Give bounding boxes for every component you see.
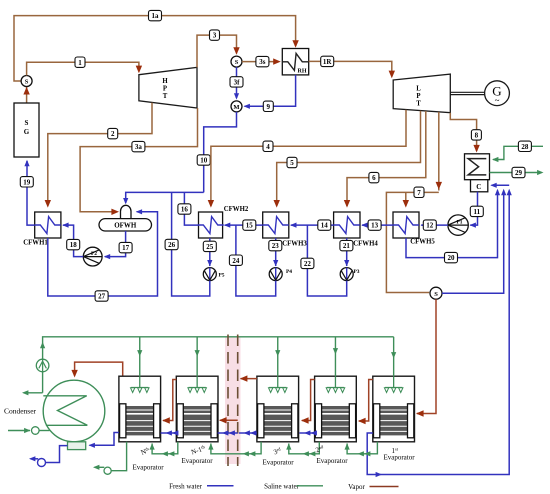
svg-text:7: 7 <box>417 189 421 197</box>
svg-text:16: 16 <box>181 206 189 214</box>
svg-text:26: 26 <box>168 241 176 249</box>
svg-text:CFWH5: CFWH5 <box>410 239 435 246</box>
condensate return 1st evaporator to C <box>367 191 509 478</box>
pump P4 <box>269 268 292 281</box>
label evaporator 1st <box>383 447 415 462</box>
svg-text:P: P <box>416 93 420 100</box>
wire line 24: P4 to feed line <box>236 225 276 296</box>
svg-text:Evaporator: Evaporator <box>132 464 164 472</box>
label 8 <box>471 130 481 140</box>
steam generator SG <box>14 103 39 157</box>
evaporator 2nd box <box>315 376 357 442</box>
label 3a <box>132 141 145 151</box>
wire line 20: CFWH5 drain to condenser <box>406 191 498 258</box>
reheater RH <box>282 49 308 75</box>
svg-text:1: 1 <box>78 59 82 67</box>
brine N-1 to N <box>150 442 178 457</box>
wire line 12: P1 to CFWH5 <box>421 223 448 228</box>
label 3s <box>256 56 269 66</box>
splitter S2 <box>231 56 242 67</box>
label 22 <box>301 258 314 268</box>
label 1R <box>321 56 334 66</box>
svg-text:25: 25 <box>206 243 214 251</box>
wire line 5: LPT extraction to CFWH3 <box>274 111 421 208</box>
label evaporator N-1 <box>181 444 213 465</box>
wire line 15: CFWH3 to CFWH2 <box>224 223 263 228</box>
label 5 <box>287 157 297 167</box>
svg-text:C: C <box>476 183 481 191</box>
splitter S1 <box>21 76 32 87</box>
wire line 29: cooling water outlet <box>490 170 544 175</box>
wire line 18: P2 to CFWH1 <box>62 223 83 257</box>
svg-text:P5: P5 <box>218 272 224 278</box>
label 16 <box>178 204 191 214</box>
svg-text:P2: P2 <box>91 251 97 257</box>
svg-text:8: 8 <box>475 132 479 140</box>
svg-text:CFWH2: CFWH2 <box>224 206 249 213</box>
wire line 1: S1 to HPT inlet <box>27 62 142 75</box>
svg-text:11: 11 <box>473 208 480 216</box>
wire S3 to 1st evaporator <box>416 299 436 417</box>
svg-text:M: M <box>233 104 239 111</box>
seawater reject line <box>22 390 43 395</box>
pump P3 <box>340 268 360 281</box>
svg-text:Evaporator: Evaporator <box>181 457 213 465</box>
svg-text:9: 9 <box>267 103 271 111</box>
wire feed header to OFWH <box>123 192 204 204</box>
svg-text:L: L <box>416 86 421 93</box>
svg-text:3f: 3f <box>234 79 241 87</box>
wire line 3f: S2 to mixer M <box>234 67 239 100</box>
turbine LPT <box>393 74 450 113</box>
wire line 8: LPT exhaust to condenser <box>450 113 480 153</box>
feedwater heater CFWH2 <box>198 206 249 238</box>
svg-text:Condenser: Condenser <box>4 407 37 416</box>
svg-text:T: T <box>163 93 168 100</box>
svg-text:S: S <box>434 291 438 298</box>
svg-text:10: 10 <box>200 157 208 165</box>
wire line 11: C to pump P1 <box>470 192 478 228</box>
svg-text:S: S <box>25 79 29 86</box>
label 28 <box>518 141 531 151</box>
label 13 <box>368 220 381 230</box>
svg-text:S: S <box>25 119 29 127</box>
label 24 <box>229 255 242 265</box>
vapor break to N-1 <box>219 417 238 423</box>
svg-text:3: 3 <box>213 32 217 40</box>
brine 1st to 2nd <box>345 442 378 457</box>
label 3 <box>210 30 220 40</box>
svg-text:2: 2 <box>111 130 115 138</box>
wire line 28: cooling water inlet <box>492 146 543 162</box>
label 3f <box>230 77 243 87</box>
turbine HPT <box>139 67 197 108</box>
splitter S3 <box>430 287 442 299</box>
vapor 2nd to 3rd <box>301 380 315 424</box>
fresh water product pump <box>29 446 68 467</box>
vapor 1st to 2nd <box>358 380 373 425</box>
label 29 <box>512 167 525 177</box>
feedwater heater CFWH5 <box>393 212 435 246</box>
evaporator N-1 box <box>176 376 218 442</box>
mixer M <box>231 101 242 112</box>
label 15 <box>243 220 256 230</box>
brine 2nd to 3rd <box>286 442 319 457</box>
svg-text:19: 19 <box>23 178 31 186</box>
svg-text:S: S <box>235 59 239 66</box>
svg-text:Evaporator: Evaporator <box>383 454 415 462</box>
label evaporator 3rd <box>262 446 294 466</box>
wire line 2: HPT extraction to CFWH1 <box>45 103 152 208</box>
label 14 <box>318 220 331 230</box>
svg-text:T: T <box>416 101 421 108</box>
distillate 2nd to 3rd <box>299 430 317 435</box>
saline water header <box>40 337 394 393</box>
svg-text:28: 28 <box>521 143 529 151</box>
svg-text:H: H <box>162 78 168 85</box>
label 9 <box>263 101 273 111</box>
svg-text:Fresh water: Fresh water <box>169 482 203 490</box>
label 27 <box>95 291 108 301</box>
label 26 <box>165 239 178 249</box>
pump P1 <box>448 215 468 235</box>
label 4 <box>263 141 273 151</box>
label 20 <box>445 252 458 262</box>
svg-text:20: 20 <box>448 254 456 262</box>
condenser hotwell box C <box>471 180 488 192</box>
label evaporator N <box>132 446 164 472</box>
svg-text:P4: P4 <box>286 269 292 275</box>
feedwater heater CFWH3 <box>263 212 308 248</box>
wire line 16: CFWH2 to OFWH header <box>184 192 198 225</box>
vapor Nth evaporator to condenser <box>71 362 122 377</box>
svg-text:24: 24 <box>232 257 240 265</box>
spray feed N-1 <box>195 337 200 376</box>
svg-text:29: 29 <box>515 169 523 177</box>
label 19 <box>20 177 33 187</box>
svg-text:1a: 1a <box>152 12 160 20</box>
spray feed N <box>137 337 142 376</box>
desalination condenser <box>4 380 105 442</box>
wire line 22: P3 to feed line <box>307 225 346 296</box>
svg-text:Vapor: Vapor <box>348 483 365 491</box>
condenser sump <box>68 442 86 450</box>
wire line 9: RH bottom to mixer M <box>244 75 296 109</box>
svg-text:13: 13 <box>371 222 379 230</box>
label 10 <box>197 155 210 165</box>
seawater feed line <box>8 427 50 435</box>
deaerator OFWH <box>99 205 152 231</box>
svg-text:22: 22 <box>304 260 312 268</box>
wire line 4: LPT extraction to CFWH2 <box>208 110 406 208</box>
wire line 1R: RH to LPT inlet <box>309 61 395 78</box>
condenser heat exchanger box <box>465 154 490 180</box>
svg-text:4: 4 <box>266 143 270 151</box>
svg-text:P3: P3 <box>353 269 359 275</box>
svg-text:OFWH: OFWH <box>114 222 137 230</box>
svg-text:G: G <box>24 128 30 136</box>
svg-text:P1: P1 <box>456 219 462 225</box>
spray feed 1st <box>391 337 396 376</box>
wire line 14: CFWH4 to CFWH3 <box>290 223 334 228</box>
break pink band <box>225 337 241 464</box>
wire line 23: CFWH3 drain to pump P4 <box>273 238 278 266</box>
label 2 <box>108 128 118 138</box>
label 18 <box>67 239 80 249</box>
svg-text:15: 15 <box>246 222 254 230</box>
svg-text:CFWH4: CFWH4 <box>353 241 378 248</box>
wire line 1a: splitter S1 to reheater RH top <box>14 16 299 81</box>
wire line 6: LPT extraction to CFWH4 <box>344 111 426 208</box>
vapor N-1 to N <box>162 380 176 424</box>
feedwater heater CFWH1 <box>23 212 61 247</box>
svg-text:21: 21 <box>343 242 351 250</box>
legend saline water <box>264 482 323 490</box>
shaft LPT to generator <box>450 92 485 94</box>
legend fresh water <box>169 482 233 490</box>
svg-text:12: 12 <box>426 222 434 230</box>
svg-text:23: 23 <box>272 242 280 250</box>
svg-text:3a: 3a <box>135 143 143 151</box>
svg-text:~: ~ <box>495 96 500 106</box>
wire line 13: CFWH5 to CFWH4 <box>361 223 393 228</box>
brine 3rd to N-1 <box>208 442 261 457</box>
wire line 25: CFWH2 drain to pump P5 <box>207 238 212 266</box>
label 23 <box>269 240 282 250</box>
label 12 <box>423 220 436 230</box>
evaporator 3rd box <box>257 376 299 442</box>
svg-text:CFWH3: CFWH3 <box>282 241 307 248</box>
wire line 21: CFWH4 drain to pump P3 <box>344 238 349 266</box>
wire line 7: LPT extraction to CFWH5 and splitter S3 <box>386 112 442 293</box>
brine blowdown pump <box>93 442 127 475</box>
svg-text:6: 6 <box>372 174 376 182</box>
wire line 3s: S2 to RH <box>242 58 281 64</box>
wire line 26: P5 to feed header <box>172 192 210 296</box>
distillate 3rd to break <box>239 430 257 435</box>
evaporator 1st box <box>373 376 415 442</box>
spray feed 3rd <box>275 337 280 376</box>
label evaporator 2nd <box>315 444 349 465</box>
evaporator N box <box>119 376 161 442</box>
wire condensate merge into C <box>490 183 512 196</box>
wire S3 to condenser C <box>442 191 504 294</box>
label 6 <box>369 172 379 182</box>
wire line 3a: HPT exhaust to OFWH <box>80 108 197 215</box>
label 1a <box>149 10 162 20</box>
vapor 3rd to break <box>240 375 257 381</box>
svg-text:27: 27 <box>98 293 106 301</box>
wire line 10: M to OFWH header <box>204 112 237 192</box>
wire line 17: OFWH to pump P2 <box>104 231 126 259</box>
distillate N to sump <box>89 433 119 448</box>
svg-text:1R: 1R <box>323 58 333 66</box>
generator G <box>485 81 510 106</box>
label 25 <box>203 241 216 251</box>
svg-text:17: 17 <box>122 244 130 252</box>
distillate N-1 to N <box>161 430 179 435</box>
spray feed 2nd <box>333 337 338 376</box>
wire line 3: HPT outlet to splitter S2 <box>197 35 240 67</box>
label 21 <box>340 240 353 250</box>
pump P5 <box>203 268 224 281</box>
svg-text:18: 18 <box>70 241 78 249</box>
wire line 19: CFWH1 to SG <box>24 160 34 225</box>
pump P2 <box>83 247 102 266</box>
break dashed lines <box>228 335 238 467</box>
svg-text:3s: 3s <box>259 58 266 66</box>
label 17 <box>119 242 132 252</box>
feedwater heater CFWH4 <box>334 212 379 248</box>
svg-text:Saline water: Saline water <box>264 482 299 490</box>
distillate break to N-1 <box>218 430 238 435</box>
svg-text:14: 14 <box>321 222 329 230</box>
seawater pump on condenser riser <box>36 359 49 372</box>
svg-text:RH: RH <box>298 69 307 75</box>
svg-text:5: 5 <box>290 159 294 167</box>
label 11 <box>470 206 483 216</box>
svg-text:CFWH1: CFWH1 <box>23 240 48 247</box>
label 7 <box>414 187 424 197</box>
wire SG to splitter S1 <box>23 87 29 103</box>
wire line 27: CFWH1 drain to OFWH <box>48 209 158 296</box>
legend vapor <box>348 483 398 491</box>
svg-text:Evaporator: Evaporator <box>262 459 294 467</box>
svg-text:P: P <box>163 86 167 93</box>
label 1 <box>75 57 85 67</box>
svg-text:Evaporator: Evaporator <box>316 457 348 465</box>
